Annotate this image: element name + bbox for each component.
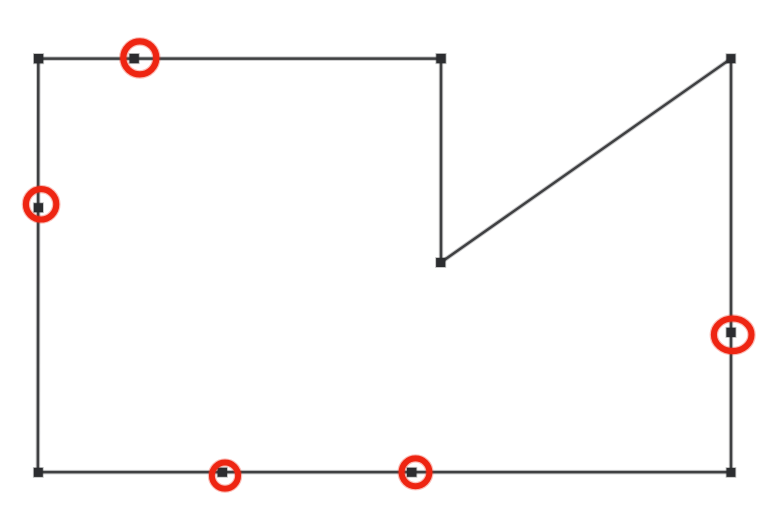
midpoint marker bottom edge 2 bbox=[407, 468, 416, 477]
red circle annotation on bottom edge midpoint 1 bbox=[212, 463, 238, 489]
polygon outline wire (soft halo) bbox=[38, 59, 731, 473]
red circle annotation on top edge midpoint bbox=[123, 41, 156, 74]
vertex marker top-left bbox=[34, 54, 43, 63]
midpoint marker bottom edge 1 bbox=[218, 468, 227, 477]
midpoint marker right edge bbox=[726, 328, 735, 337]
polygon outline wire (core) bbox=[38, 59, 731, 473]
vertex marker notch bottom bbox=[436, 258, 445, 267]
vertex marker bottom-left bbox=[34, 468, 43, 477]
red circle annotation on left edge midpoint bbox=[26, 189, 56, 219]
midpoint marker top edge bbox=[130, 54, 139, 63]
vertex marker notch top bbox=[436, 54, 445, 63]
vertex marker bottom-right bbox=[727, 468, 736, 477]
vertex marker top-right bbox=[726, 54, 735, 63]
midpoint marker left edge bbox=[34, 203, 43, 212]
red circle annotation on bottom edge midpoint 2 bbox=[402, 458, 430, 486]
red circle annotation on right edge midpoint bbox=[714, 319, 752, 352]
